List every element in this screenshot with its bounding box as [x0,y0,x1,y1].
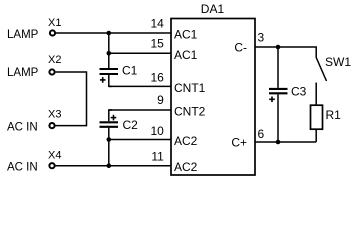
svg-text:AC IN: AC IN [7,122,38,134]
wire C1 top lead [108,33,110,68]
svg-text:AC2: AC2 [174,134,198,148]
svg-text:11: 11 [151,150,164,164]
svg-text:LAMP: LAMP [7,67,39,79]
wire pin6 to R1 [255,141,316,143]
wire pin15 [109,52,171,54]
wire pin16 [109,85,171,87]
svg-text:16: 16 [150,70,164,84]
svg-text:SW1: SW1 [325,55,351,69]
svg-text:X2: X2 [48,54,61,66]
wire pin3 to switch [255,47,316,58]
svg-text:3: 3 [258,31,265,45]
svg-text:C2: C2 [123,118,139,132]
svg-text:X1: X1 [48,17,61,29]
terminal X4 [49,163,54,168]
wire pin14 from X1 [56,32,172,34]
resistor R1 bottom lead [315,129,317,142]
terminal X2 [49,69,54,74]
terminal X3 [49,123,54,128]
wire C3 bottom lead [277,94,279,142]
capacitor C2 plates [100,122,119,127]
svg-text:AC1: AC1 [174,28,198,42]
wire C3 top lead [277,47,279,88]
terminal X1 [50,30,55,35]
svg-text:C+: C+ [231,136,247,150]
svg-text:6: 6 [258,127,265,141]
svg-text:10: 10 [150,124,164,138]
svg-text:X3: X3 [48,109,61,121]
svg-text:DA1: DA1 [201,2,225,16]
junction node pin6/C3 [276,140,281,145]
junction node pin15 [107,51,112,56]
svg-text:9: 9 [157,93,164,107]
svg-text:14: 14 [150,16,164,30]
svg-text:15: 15 [150,37,164,51]
junction node pin3/C3 [276,45,281,50]
C2 polarity plus [111,115,117,121]
svg-text:X4: X4 [48,149,61,161]
capacitor C1 plates [100,69,119,74]
svg-text:CNT1: CNT1 [174,81,206,95]
C3 polarity plus [269,97,275,103]
svg-text:C3: C3 [291,84,307,98]
switch SW1 lower contact lead [315,83,317,106]
C1 polarity plus [100,77,106,83]
wire pin11 from X4 [56,165,172,167]
svg-text:AC IN: AC IN [7,161,38,173]
capacitor C3 plates [269,89,288,93]
wire pin10 [109,139,171,141]
wire X2 to X3 jumper [56,72,87,126]
wire C2 bottom lead [108,128,110,166]
svg-text:C-: C- [234,41,247,55]
resistor R1 body [311,105,323,129]
svg-text:AC1: AC1 [174,48,198,62]
svg-text:AC2: AC2 [174,160,198,174]
svg-text:C1: C1 [122,64,138,78]
junction node pin11/X4 [107,163,112,168]
wire C2 top lead [109,110,112,121]
wire C1 bottom lead [109,75,112,86]
svg-text:LAMP: LAMP [7,29,39,41]
junction node pin10 [107,137,112,142]
junction node pin14/C1 [107,31,112,36]
svg-text:R1: R1 [326,108,342,122]
switch SW1 blade [316,58,326,82]
wire pin9 [109,109,171,111]
IC DA1 body [171,19,255,176]
svg-text:CNT2: CNT2 [174,105,206,119]
